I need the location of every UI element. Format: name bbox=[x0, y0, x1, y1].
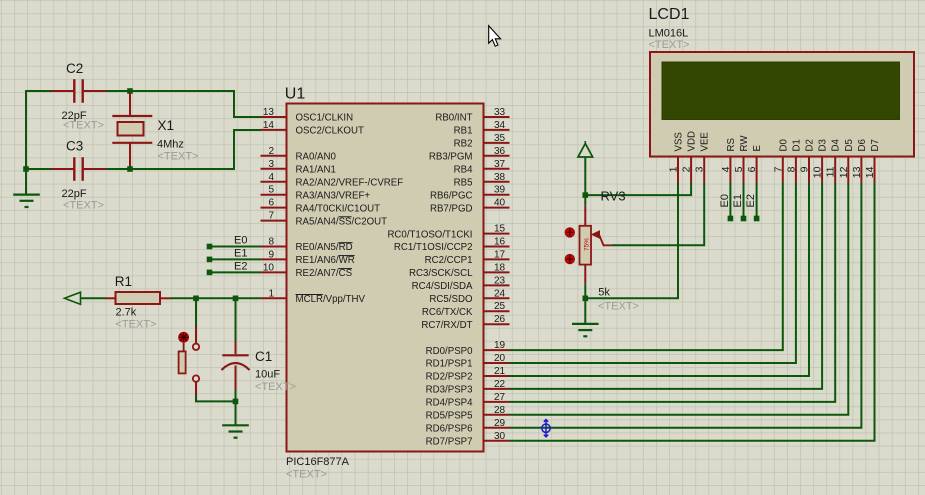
pin 2 LCD VDD bbox=[690, 157, 692, 184]
svg-text:RA5/AN4/SS/C2OUT: RA5/AN4/SS/C2OUT bbox=[296, 216, 388, 227]
svg-text:RB5: RB5 bbox=[454, 178, 473, 189]
pin 4 left bbox=[261, 181, 287, 183]
wire to button bbox=[195, 298, 197, 326]
svg-text:5: 5 bbox=[268, 185, 274, 196]
svg-text:RB7/PGD: RB7/PGD bbox=[430, 203, 473, 214]
svg-text:26: 26 bbox=[494, 314, 506, 325]
svg-text:<TEXT>: <TEXT> bbox=[286, 469, 327, 481]
svg-text:39: 39 bbox=[494, 185, 506, 196]
ground C1 bbox=[222, 424, 249, 426]
pin 7 left bbox=[261, 220, 287, 222]
svg-text:35: 35 bbox=[494, 133, 506, 144]
svg-text:5: 5 bbox=[733, 166, 745, 172]
wire VDD net bbox=[585, 183, 691, 195]
svg-text:40: 40 bbox=[494, 198, 506, 209]
potentiometer RV3 bbox=[584, 206, 586, 226]
wire R1 to pin1 bbox=[171, 297, 261, 299]
svg-text:E: E bbox=[752, 145, 763, 152]
pin 6 left bbox=[261, 207, 287, 209]
LCD1 body bbox=[650, 52, 914, 157]
pin 14 LCD D7 bbox=[874, 157, 876, 184]
pin 16 right bbox=[484, 246, 510, 248]
svg-text:75%: 75% bbox=[584, 238, 591, 251]
svg-text:RC6/TX/CK: RC6/TX/CK bbox=[422, 307, 473, 318]
svg-text:LCD1: LCD1 bbox=[649, 6, 690, 23]
svg-text:8: 8 bbox=[268, 237, 274, 248]
svg-text:15: 15 bbox=[494, 224, 506, 235]
svg-text:38: 38 bbox=[494, 172, 506, 183]
svg-text:10: 10 bbox=[812, 166, 824, 178]
pin 28 right bbox=[484, 414, 510, 416]
svg-text:RB6/PGC: RB6/PGC bbox=[430, 190, 473, 201]
pin 19 right bbox=[484, 349, 510, 351]
wire C1 to ground bbox=[235, 390, 237, 402]
svg-text:19: 19 bbox=[494, 340, 506, 351]
svg-text:D2: D2 bbox=[805, 139, 816, 151]
svg-text:16: 16 bbox=[494, 237, 506, 248]
svg-text:LM016L: LM016L bbox=[649, 28, 689, 40]
svg-text:RE0/AN5/RD: RE0/AN5/RD bbox=[296, 242, 353, 253]
svg-text:RA3/AN3/VREF+: RA3/AN3/VREF+ bbox=[296, 190, 371, 201]
node junction bottom bbox=[127, 166, 133, 172]
wire arrow to R1 bbox=[81, 297, 106, 299]
capacitor C3 bbox=[73, 157, 75, 181]
LCD screen bbox=[662, 62, 900, 120]
pin 1 LCD VSS bbox=[677, 157, 679, 184]
svg-text:36: 36 bbox=[494, 146, 506, 157]
svg-text:X1: X1 bbox=[158, 118, 175, 133]
wire RD2 to LCD D2 bbox=[510, 183, 810, 376]
svg-text:OSC1/CLKIN: OSC1/CLKIN bbox=[296, 113, 354, 124]
svg-text:<TEXT>: <TEXT> bbox=[649, 39, 690, 51]
wire VCC to RV3 bbox=[584, 157, 586, 206]
wire VEE net bbox=[612, 183, 704, 245]
svg-text:RD6/PSP6: RD6/PSP6 bbox=[426, 424, 473, 435]
pin 21 right bbox=[484, 375, 510, 377]
capacitor C1 bbox=[235, 342, 237, 355]
node junction button bbox=[193, 296, 199, 302]
wire to ground RV3 bbox=[584, 298, 586, 324]
wire to pin13 bbox=[106, 91, 261, 117]
svg-text:<TEXT>: <TEXT> bbox=[63, 120, 104, 132]
pin 9 left bbox=[261, 258, 287, 260]
svg-text:12: 12 bbox=[838, 166, 850, 178]
svg-text:2: 2 bbox=[268, 146, 274, 157]
pin 23 right bbox=[484, 284, 510, 286]
marker crosshair bbox=[542, 420, 550, 437]
pin 17 right bbox=[484, 258, 510, 260]
svg-text:RD0/PSP0: RD0/PSP0 bbox=[426, 346, 473, 357]
svg-text:VDD: VDD bbox=[687, 131, 698, 151]
pin 9 LCD D2 bbox=[808, 157, 810, 184]
crystal X1 bbox=[129, 93, 131, 116]
svg-text:D7: D7 bbox=[870, 139, 881, 151]
svg-text:37: 37 bbox=[494, 159, 506, 170]
pin 3 LCD VEE bbox=[703, 157, 705, 184]
svg-text:D5: D5 bbox=[844, 139, 855, 151]
svg-text:RB1: RB1 bbox=[454, 126, 473, 137]
svg-text:2: 2 bbox=[681, 166, 693, 172]
pin 30 right bbox=[484, 440, 510, 442]
pin 34 right bbox=[484, 129, 510, 131]
svg-text:22: 22 bbox=[494, 379, 506, 390]
wire RD0 to LCD D0 bbox=[510, 183, 783, 350]
svg-text:14: 14 bbox=[263, 120, 275, 131]
wire RD5 to LCD D5 bbox=[510, 183, 849, 415]
svg-text:RC2/CCP1: RC2/CCP1 bbox=[425, 255, 473, 266]
pin 1 left bbox=[261, 297, 287, 299]
svg-text:RW: RW bbox=[739, 135, 750, 152]
svg-text:D3: D3 bbox=[818, 139, 829, 151]
svg-text:VSS: VSS bbox=[674, 132, 685, 152]
node junction C1 bbox=[233, 296, 239, 302]
svg-text:18: 18 bbox=[494, 262, 506, 273]
svg-text:3: 3 bbox=[694, 166, 706, 172]
pin 5 LCD RW bbox=[743, 157, 745, 184]
pin 11 LCD D4 bbox=[834, 157, 836, 184]
svg-text:MCLR/Vpp/THV: MCLR/Vpp/THV bbox=[296, 294, 366, 305]
pin 18 right bbox=[484, 271, 510, 273]
svg-text:<TEXT>: <TEXT> bbox=[158, 151, 199, 163]
svg-text:20: 20 bbox=[494, 353, 506, 364]
svg-text:9: 9 bbox=[268, 249, 274, 260]
ground left bbox=[13, 194, 40, 196]
pin 35 right bbox=[484, 142, 510, 144]
svg-text:D0: D0 bbox=[778, 139, 789, 152]
svg-text:<TEXT>: <TEXT> bbox=[255, 381, 296, 393]
svg-text:23: 23 bbox=[494, 275, 506, 286]
push button bbox=[195, 327, 197, 344]
svg-text:17: 17 bbox=[494, 249, 506, 260]
pin 10 left bbox=[261, 271, 287, 273]
pin 7 LCD D0 bbox=[782, 157, 784, 184]
svg-text:33: 33 bbox=[494, 107, 506, 118]
wire RD4 to LCD D4 bbox=[510, 183, 836, 402]
svg-text:6: 6 bbox=[268, 198, 274, 209]
svg-text:4Mhz: 4Mhz bbox=[157, 139, 184, 151]
svg-text:21: 21 bbox=[494, 366, 506, 377]
pin 20 right bbox=[484, 362, 510, 364]
pin 27 right bbox=[484, 401, 510, 403]
svg-text:28: 28 bbox=[494, 405, 506, 416]
pin 29 right bbox=[484, 427, 510, 429]
svg-text:29: 29 bbox=[494, 418, 506, 429]
wire RD6 to LCD D6 bbox=[510, 183, 862, 428]
pin 38 right bbox=[484, 181, 510, 183]
svg-text:4: 4 bbox=[268, 172, 274, 183]
svg-text:PIC16F877A: PIC16F877A bbox=[286, 456, 350, 468]
svg-text:30: 30 bbox=[494, 431, 506, 442]
svg-text:2.7k: 2.7k bbox=[116, 307, 137, 319]
pin 39 right bbox=[484, 194, 510, 196]
pin 2 left bbox=[261, 155, 287, 157]
svg-text:RB2: RB2 bbox=[454, 139, 473, 150]
svg-text:14: 14 bbox=[864, 166, 876, 178]
wire to C1 bbox=[235, 298, 237, 341]
svg-text:13: 13 bbox=[851, 166, 863, 178]
terminal input arrow bbox=[65, 292, 81, 304]
ground RV3 bbox=[572, 323, 599, 325]
node junction 5k bbox=[583, 296, 589, 302]
pin 6 LCD E bbox=[756, 157, 758, 184]
svg-text:D4: D4 bbox=[831, 139, 842, 152]
svg-text:7: 7 bbox=[772, 166, 784, 172]
svg-text:RD3/PSP3: RD3/PSP3 bbox=[426, 385, 473, 396]
svg-text:1: 1 bbox=[268, 288, 274, 299]
capacitor C2 bbox=[73, 79, 75, 103]
pin 14 left bbox=[261, 129, 287, 131]
svg-text:13: 13 bbox=[263, 107, 275, 118]
svg-text:R1: R1 bbox=[115, 274, 132, 289]
svg-text:RE2/AN7/CS: RE2/AN7/CS bbox=[296, 268, 353, 279]
svg-text:RE1/AN6/WR: RE1/AN6/WR bbox=[296, 255, 355, 266]
pin 13 LCD D6 bbox=[860, 157, 862, 184]
svg-text:RC1/T1OSI/CCP2: RC1/T1OSI/CCP2 bbox=[394, 242, 473, 253]
svg-text:4: 4 bbox=[720, 166, 732, 172]
pin 33 right bbox=[484, 116, 510, 118]
node junction VCC bbox=[583, 192, 589, 198]
svg-text:E0: E0 bbox=[234, 235, 247, 247]
svg-text:VEE: VEE bbox=[700, 132, 711, 152]
wire OSC bottom bbox=[26, 168, 52, 170]
svg-text:RA0/AN0: RA0/AN0 bbox=[296, 152, 337, 163]
pin 4 LCD RS bbox=[729, 157, 731, 184]
svg-text:RD2/PSP2: RD2/PSP2 bbox=[426, 372, 473, 383]
svg-text:U1: U1 bbox=[285, 86, 306, 103]
resistor R1 bbox=[116, 292, 161, 304]
svg-text:8: 8 bbox=[785, 166, 797, 172]
pin 24 right bbox=[484, 297, 510, 299]
svg-text:22pF: 22pF bbox=[62, 188, 87, 200]
svg-text:RD4/PSP4: RD4/PSP4 bbox=[426, 398, 473, 409]
svg-text:9: 9 bbox=[799, 166, 811, 172]
pin 26 right bbox=[484, 323, 510, 325]
pin 22 right bbox=[484, 388, 510, 390]
svg-text:OSC2/CLKOUT: OSC2/CLKOUT bbox=[296, 126, 364, 137]
wire to ground bbox=[25, 169, 27, 195]
svg-text:34: 34 bbox=[494, 120, 506, 131]
svg-text:C3: C3 bbox=[66, 139, 83, 154]
pin 15 right bbox=[484, 233, 510, 235]
pin 3 left bbox=[261, 168, 287, 170]
svg-text:RD1/PSP1: RD1/PSP1 bbox=[426, 359, 473, 370]
svg-text:RD5/PSP5: RD5/PSP5 bbox=[426, 411, 473, 422]
svg-text:RB4: RB4 bbox=[454, 165, 473, 176]
svg-text:25: 25 bbox=[494, 301, 506, 312]
svg-text:3: 3 bbox=[268, 159, 274, 170]
pin 5 left bbox=[261, 194, 287, 196]
svg-text:C2: C2 bbox=[66, 61, 83, 76]
svg-text:RC0/T1OSO/T1CKI: RC0/T1OSO/T1CKI bbox=[387, 229, 472, 240]
svg-text:11: 11 bbox=[825, 166, 837, 177]
svg-text:E1: E1 bbox=[732, 194, 744, 207]
svg-text:<TEXT>: <TEXT> bbox=[598, 301, 639, 313]
pin 12 LCD D5 bbox=[847, 157, 849, 184]
wire OSC top bbox=[26, 91, 52, 169]
svg-text:10: 10 bbox=[263, 262, 275, 273]
wire button to C1 net bbox=[195, 382, 197, 395]
pin 10 LCD D3 bbox=[821, 157, 823, 184]
wire RD7 to LCD D7 bbox=[510, 183, 875, 441]
wire net E0 to chip bbox=[210, 246, 261, 248]
svg-text:D6: D6 bbox=[857, 139, 868, 151]
pin 36 right bbox=[484, 155, 510, 157]
pin 25 right bbox=[484, 310, 510, 312]
power terminal VCC bbox=[584, 141, 586, 144]
pin 40 right bbox=[484, 207, 510, 209]
pin 13 left bbox=[261, 116, 287, 118]
svg-text:RV3: RV3 bbox=[601, 189, 626, 204]
wire VSS net bbox=[585, 183, 678, 298]
svg-text:E0: E0 bbox=[719, 194, 731, 207]
IC U1 PIC16F877A bbox=[287, 104, 484, 452]
pin 8 left bbox=[261, 246, 287, 248]
wire net E1 to chip bbox=[210, 258, 261, 260]
svg-text:E1: E1 bbox=[234, 247, 247, 259]
RV3 adjust buttons bbox=[565, 228, 574, 237]
wire net E2 to chip bbox=[210, 271, 261, 273]
svg-text:RD7/PSP7: RD7/PSP7 bbox=[426, 437, 473, 448]
svg-text:RB3/PGM: RB3/PGM bbox=[429, 152, 473, 163]
svg-text:C1: C1 bbox=[255, 349, 272, 364]
wire to pin14 bbox=[106, 130, 261, 169]
wire net E2 LCD bbox=[756, 183, 758, 219]
svg-text:E2: E2 bbox=[745, 194, 757, 207]
svg-text:RC5/SDO: RC5/SDO bbox=[429, 294, 473, 305]
mouse cursor bbox=[489, 26, 501, 47]
node junction gnd bbox=[233, 399, 239, 405]
svg-text:RA2/AN2/VREF-/CVREF: RA2/AN2/VREF-/CVREF bbox=[296, 178, 404, 189]
svg-text:RB0/INT: RB0/INT bbox=[435, 113, 472, 124]
svg-text:RS: RS bbox=[726, 138, 737, 152]
svg-text:6: 6 bbox=[746, 166, 758, 172]
node junction top bbox=[127, 88, 133, 94]
wire net E0 LCD bbox=[729, 183, 731, 219]
svg-text:D1: D1 bbox=[791, 139, 802, 151]
svg-text:RC4/SDI/SDA: RC4/SDI/SDA bbox=[412, 281, 473, 292]
svg-text:10uF: 10uF bbox=[255, 369, 280, 381]
svg-text:27: 27 bbox=[494, 392, 506, 403]
wire RD3 to LCD D3 bbox=[510, 183, 823, 389]
svg-text:5k: 5k bbox=[598, 287, 610, 299]
svg-text:<TEXT>: <TEXT> bbox=[116, 319, 157, 331]
svg-text:RC7/RX/DT: RC7/RX/DT bbox=[421, 320, 472, 331]
svg-text:24: 24 bbox=[494, 288, 506, 299]
pin 37 right bbox=[484, 168, 510, 170]
svg-text:1: 1 bbox=[668, 166, 680, 172]
svg-text:E2: E2 bbox=[234, 260, 247, 272]
wire net E1 LCD bbox=[743, 183, 745, 219]
wire RD1 to LCD D1 bbox=[510, 183, 796, 363]
svg-text:RA4/T0CKI/C1OUT: RA4/T0CKI/C1OUT bbox=[296, 203, 381, 214]
svg-text:RC3/SCK/SCL: RC3/SCK/SCL bbox=[409, 268, 473, 279]
svg-text:<TEXT>: <TEXT> bbox=[63, 200, 104, 212]
pin 8 LCD D1 bbox=[795, 157, 797, 184]
svg-text:RA1/AN1: RA1/AN1 bbox=[296, 165, 336, 176]
wire RV3 bottom bbox=[584, 283, 586, 298]
svg-text:7: 7 bbox=[268, 211, 274, 222]
